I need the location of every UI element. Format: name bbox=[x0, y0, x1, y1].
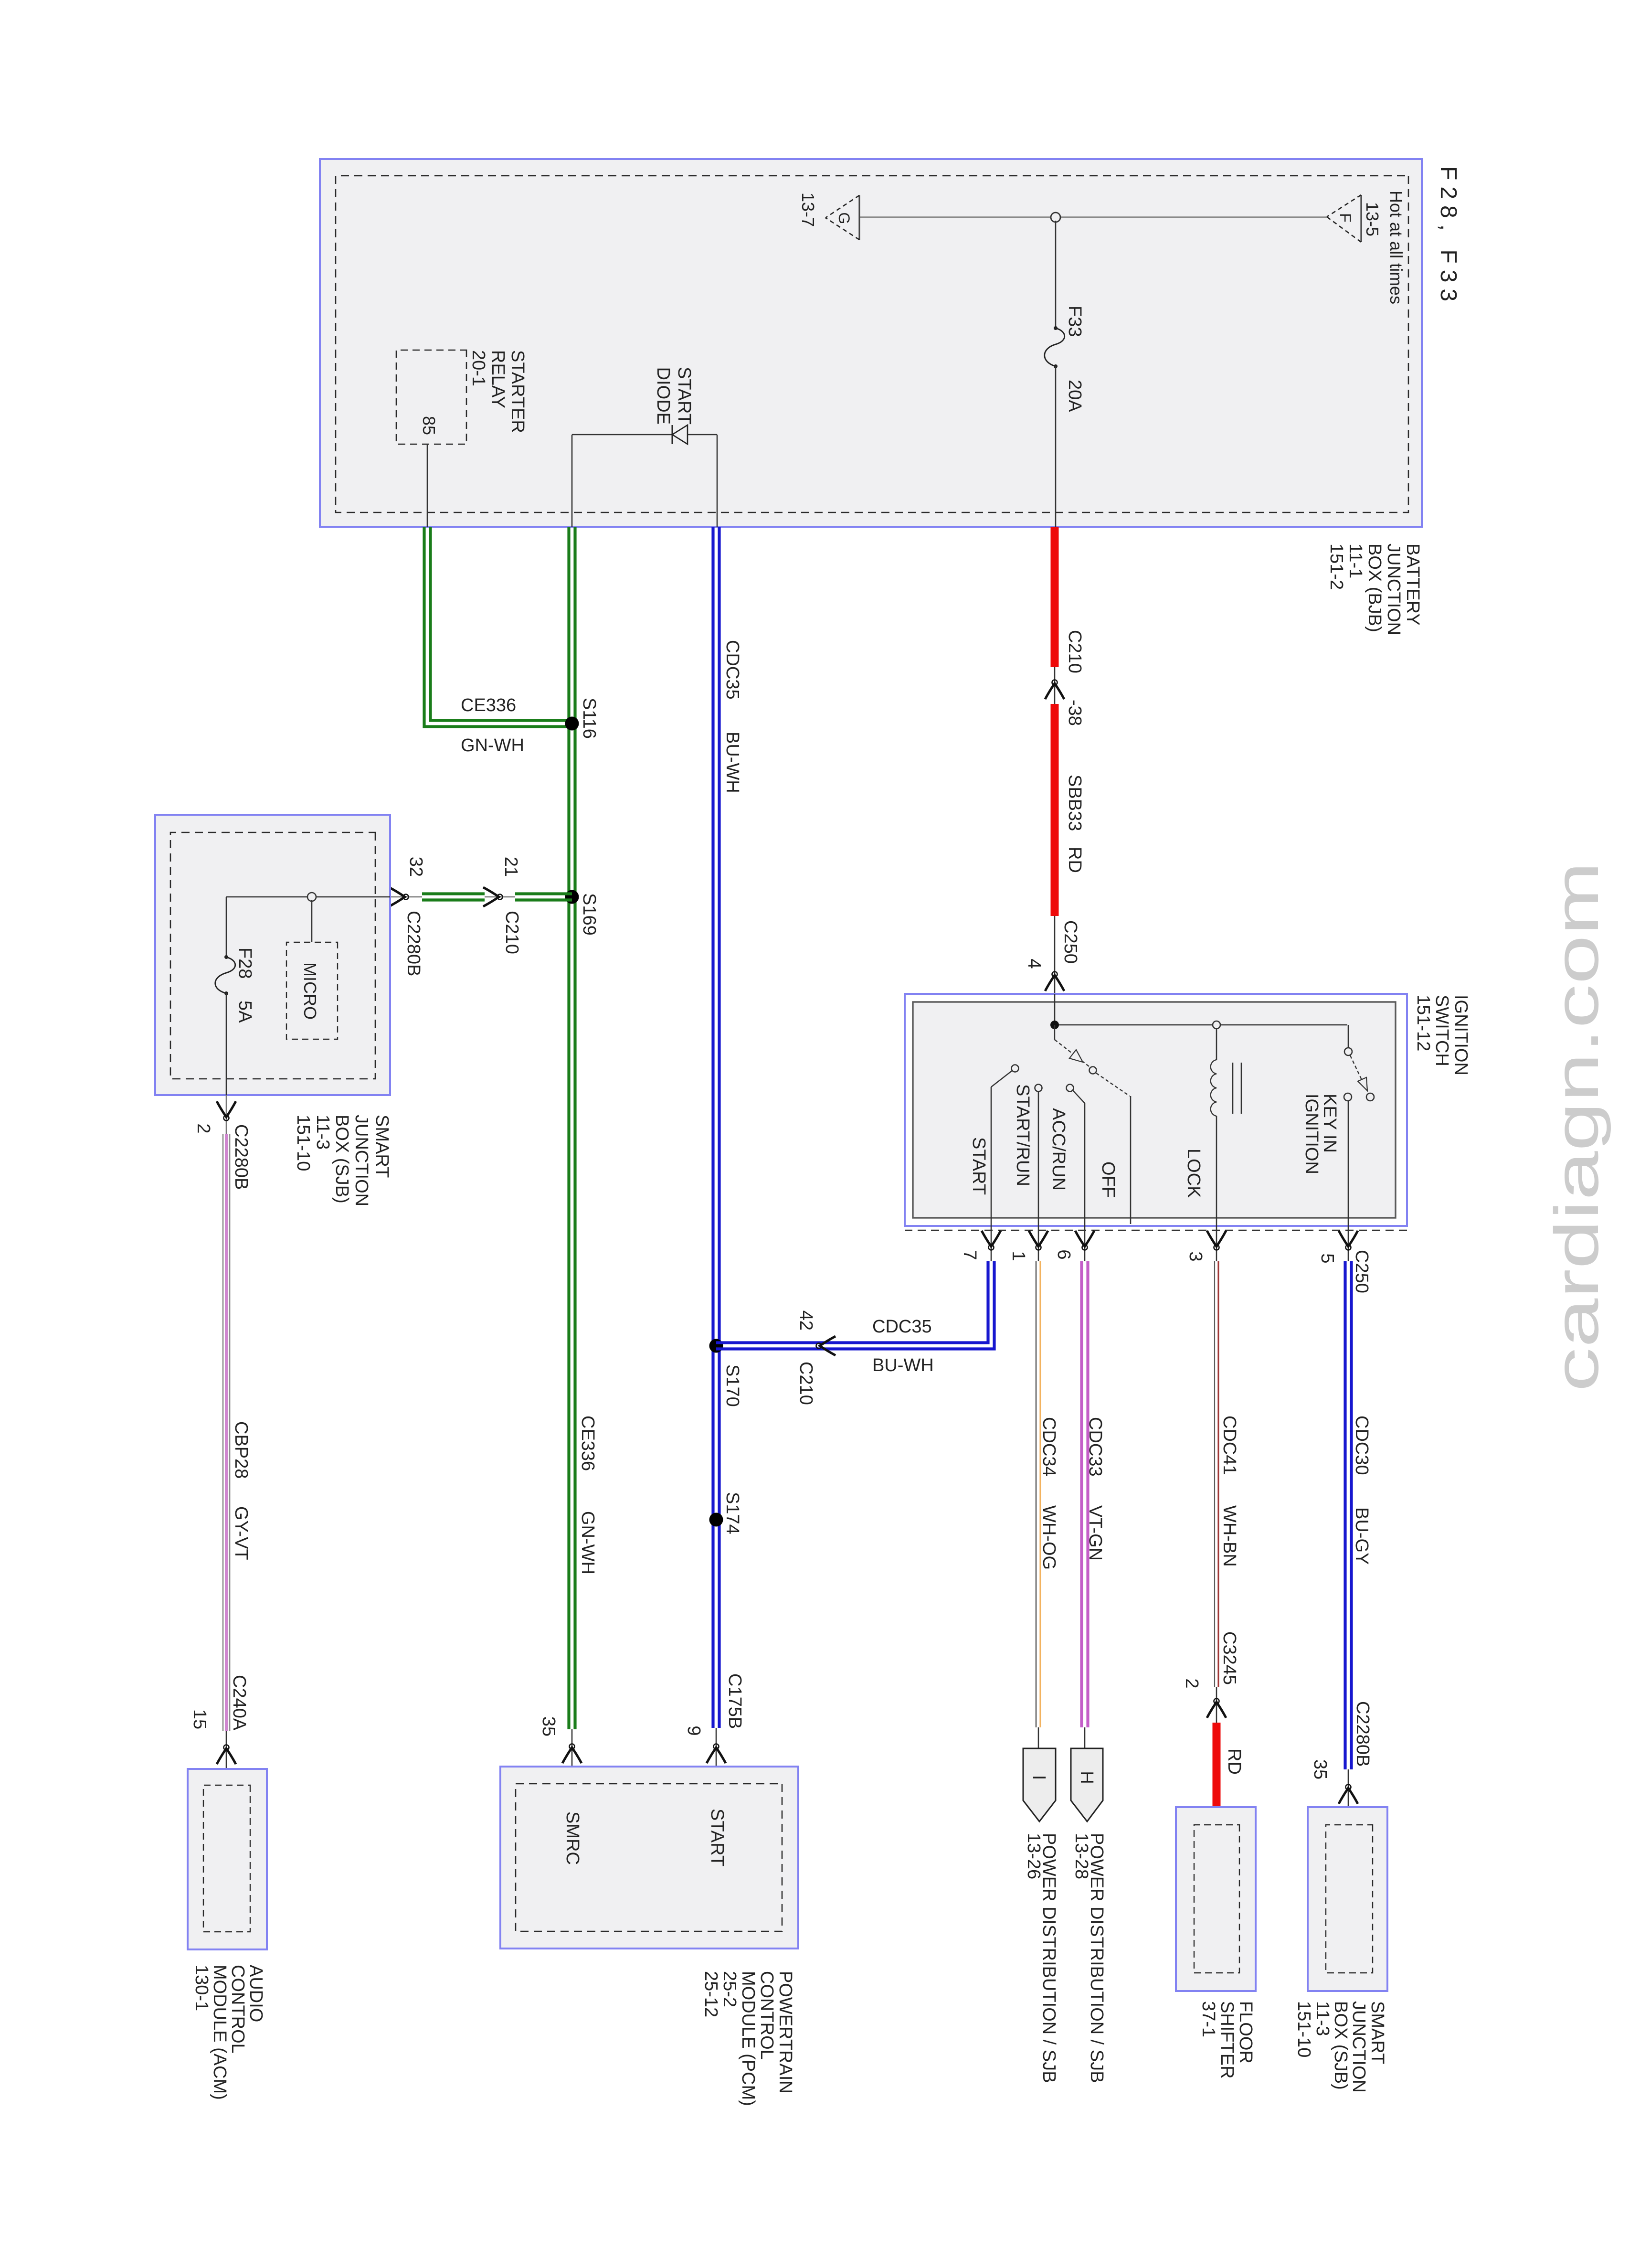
SJB2 label bbox=[1294, 2001, 1387, 2093]
svg-text:JUNCTION: JUNCTION bbox=[1384, 543, 1404, 635]
smart junction box SJB outline bbox=[155, 815, 390, 1095]
red wire to floor shifter bbox=[1213, 1723, 1221, 1807]
starter relay dashed box bbox=[396, 350, 466, 444]
svg-text:151-2: 151-2 bbox=[1326, 543, 1346, 590]
key in ignition switch bbox=[1344, 1025, 1374, 1226]
svg-text:S174: S174 bbox=[722, 1492, 742, 1534]
ignition switch box outer bbox=[905, 994, 1407, 1226]
svg-text:F33: F33 bbox=[1065, 306, 1085, 337]
PCM label bbox=[701, 1971, 795, 2106]
svg-text:cardiagn.com: cardiagn.com bbox=[1542, 862, 1611, 1392]
wire thin to ignition bbox=[1054, 916, 1056, 994]
svg-text:20A: 20A bbox=[1065, 380, 1085, 412]
blue wire pin7 with corner to S170 bbox=[716, 1261, 994, 1349]
svg-text:SMART: SMART bbox=[1367, 2001, 1387, 2064]
svg-text:C210: C210 bbox=[502, 911, 522, 954]
green wire SJB branch lower bbox=[422, 892, 485, 895]
svg-text:35: 35 bbox=[1310, 1759, 1330, 1779]
svg-text:STARTER: STARTER bbox=[508, 350, 528, 433]
wire OFF position bbox=[1096, 1073, 1131, 1224]
svg-text:GN-WH: GN-WH bbox=[461, 735, 524, 756]
terminal circle lock branch bbox=[1213, 1021, 1220, 1029]
svg-text:CONTROL: CONTROL bbox=[228, 1965, 248, 2054]
ACM label bbox=[191, 1965, 266, 2100]
wire from bus to fuse F33 bbox=[1055, 221, 1057, 328]
svg-text:MODULE (PCM): MODULE (PCM) bbox=[738, 1971, 758, 2106]
svg-text:151-10: 151-10 bbox=[1294, 2001, 1314, 2057]
svg-text:START: START bbox=[707, 1809, 727, 1866]
SJB2 dashed border bbox=[1326, 1825, 1373, 1973]
wire CBP28 GY-VT bbox=[223, 1134, 230, 1731]
fuse F28 bbox=[215, 955, 235, 995]
svg-text:SBB33: SBB33 bbox=[1065, 775, 1085, 831]
green wire CE336 main run bbox=[573, 527, 576, 1729]
svg-text:32: 32 bbox=[406, 857, 426, 877]
connector arrow C175B pin 9 bbox=[707, 1744, 726, 1764]
red wire SBB33 segment 2 bbox=[1051, 704, 1059, 916]
svg-text:F: F bbox=[1337, 213, 1354, 223]
red fuse output wire SBB33 segment 1 bbox=[1051, 527, 1059, 667]
svg-text:11-3: 11-3 bbox=[313, 1115, 333, 1150]
wire fuse F33 to box edge bbox=[1055, 366, 1057, 527]
blue wire CDC35 main run bbox=[718, 527, 720, 1728]
svg-text:LOCK: LOCK bbox=[1184, 1149, 1204, 1198]
svg-text:C240A: C240A bbox=[229, 1675, 249, 1731]
svg-text:CDC30: CDC30 bbox=[1352, 1416, 1372, 1475]
wire thin blue to PCM bbox=[716, 1728, 717, 1784]
wire thin to connector 2 C2280B bbox=[226, 1095, 227, 1134]
node S169 bbox=[565, 890, 579, 904]
svg-text:C2280B: C2280B bbox=[1353, 1701, 1373, 1767]
connector arrow 2 C2280B bbox=[217, 1101, 236, 1121]
wire thin green to PCM bbox=[571, 1729, 573, 1784]
svg-text:KEY IN: KEY IN bbox=[1320, 1094, 1340, 1153]
svg-text:-38: -38 bbox=[1065, 700, 1085, 726]
svg-text:11-3: 11-3 bbox=[1312, 2001, 1333, 2036]
wire thin to connector I bbox=[1038, 1727, 1039, 1748]
svg-text:15: 15 bbox=[190, 1709, 210, 1729]
wire thin from SJB to connector 32 bbox=[390, 896, 422, 898]
svg-text:C3245: C3245 bbox=[1219, 1631, 1239, 1685]
svg-text:25-12: 25-12 bbox=[701, 1971, 721, 2017]
svg-text:I: I bbox=[1029, 1775, 1049, 1780]
connector arrow 2 C3245 bbox=[1207, 1699, 1226, 1718]
SJB label bbox=[293, 1115, 392, 1206]
svg-text:151-10: 151-10 bbox=[293, 1115, 313, 1171]
svg-text:151-12: 151-12 bbox=[1413, 995, 1433, 1051]
svg-text:13-5: 13-5 bbox=[1363, 202, 1382, 236]
connector C250 dashed line bbox=[905, 1230, 1407, 1231]
svg-text:S169: S169 bbox=[579, 893, 599, 936]
svg-text:C250: C250 bbox=[1352, 1250, 1372, 1293]
connector arrow pin 3 bbox=[1207, 1231, 1226, 1250]
svg-text:IGNITION: IGNITION bbox=[1451, 995, 1471, 1075]
connector arrow 35 C2280B bbox=[1339, 1785, 1358, 1804]
wire BU-GY bbox=[1350, 1261, 1353, 1769]
smart junction box SJB lower bbox=[1308, 1807, 1387, 1991]
svg-text:IGNITION: IGNITION bbox=[1301, 1094, 1322, 1174]
connector I pentagon bbox=[1023, 1748, 1056, 1821]
svg-text:5A: 5A bbox=[235, 1001, 255, 1023]
pin 6 wire exit bbox=[1084, 1226, 1086, 1261]
battery junction box (BJB) outline bbox=[320, 159, 1422, 527]
svg-text:S116: S116 bbox=[579, 698, 599, 739]
wire VT-GN bbox=[1086, 1261, 1089, 1727]
svg-text:13-28: 13-28 bbox=[1071, 1833, 1091, 1879]
svg-text:7: 7 bbox=[960, 1250, 980, 1260]
svg-text:C210: C210 bbox=[1065, 630, 1085, 673]
PCM dashed border bbox=[516, 1784, 782, 1931]
wire thin into floor shifter bbox=[1216, 1807, 1217, 1825]
connector arrow PCM pin 35 bbox=[562, 1744, 582, 1764]
svg-text:C210: C210 bbox=[796, 1362, 816, 1405]
contact START/RUN bbox=[1035, 1085, 1042, 1226]
connector arrow pin 6 bbox=[1075, 1231, 1094, 1250]
SJB internal wire vertical bbox=[226, 896, 390, 898]
svg-text:BOX (SJB): BOX (SJB) bbox=[1331, 2001, 1351, 2090]
svg-text:RD: RD bbox=[1065, 847, 1085, 873]
svg-text:CE336: CE336 bbox=[578, 1416, 598, 1471]
label KEY IN IGNITION bbox=[1301, 1094, 1340, 1174]
svg-text:SWITCH: SWITCH bbox=[1432, 995, 1452, 1066]
ACM dashed border bbox=[203, 1785, 250, 1932]
SJB dashed border bbox=[170, 832, 375, 1079]
svg-text:MODULE (ACM): MODULE (ACM) bbox=[210, 1965, 230, 2100]
svg-text:130-1: 130-1 bbox=[191, 1965, 212, 2011]
svg-text:GN-WH: GN-WH bbox=[578, 1511, 598, 1575]
wire entry pin 4 into switch bbox=[1054, 994, 1056, 1025]
ignition switch label bbox=[1413, 995, 1471, 1075]
svg-text:G: G bbox=[836, 213, 853, 224]
junction dot feed bbox=[1050, 1021, 1059, 1029]
pin 5 wire exit bbox=[1348, 1226, 1349, 1261]
SJB internal wire horizontal bbox=[226, 897, 227, 957]
power feed triangle F bbox=[1327, 195, 1361, 242]
wire WH-BN bbox=[1214, 1261, 1215, 1687]
svg-text:3: 3 bbox=[1185, 1251, 1206, 1261]
connector arrow pin 1 bbox=[1029, 1231, 1048, 1250]
svg-text:C2280B: C2280B bbox=[403, 911, 423, 976]
floor shifter label bbox=[1198, 2001, 1256, 2079]
wire thin at C3245 bbox=[1216, 1687, 1217, 1723]
svg-text:H: H bbox=[1077, 1771, 1097, 1784]
svg-text:RD: RD bbox=[1224, 1748, 1244, 1775]
wire fuse to box edge bbox=[226, 993, 227, 1095]
svg-text:11-1: 11-1 bbox=[1345, 543, 1365, 578]
lock coil branch bbox=[1211, 1028, 1241, 1226]
svg-text:4: 4 bbox=[1024, 958, 1044, 969]
svg-text:25-2: 25-2 bbox=[719, 1971, 740, 2007]
svg-text:BATTERY: BATTERY bbox=[1403, 543, 1423, 626]
svg-text:37-1: 37-1 bbox=[1198, 2001, 1218, 2037]
pin 1 wire exit bbox=[1038, 1226, 1039, 1261]
floor shifter box bbox=[1176, 1807, 1256, 1991]
svg-text:C175B: C175B bbox=[725, 1673, 745, 1729]
svg-text:20-1: 20-1 bbox=[468, 350, 488, 386]
connector arrow 42 C210 bbox=[816, 1336, 836, 1355]
svg-text:BOX (BJB): BOX (BJB) bbox=[1365, 543, 1385, 632]
connector arrow 32 C2280B bbox=[389, 887, 409, 906]
terminal circle bbox=[307, 893, 316, 901]
ignition switch box inner bbox=[913, 1002, 1396, 1218]
svg-text:MICRO: MICRO bbox=[300, 962, 320, 1020]
wire WH-OG bbox=[1036, 1261, 1037, 1727]
junction circle on bus bbox=[1051, 213, 1060, 222]
svg-text:35: 35 bbox=[539, 1716, 559, 1736]
svg-text:ACC/RUN: ACC/RUN bbox=[1048, 1108, 1068, 1191]
MICRO dashed box bbox=[286, 942, 338, 1039]
svg-text:9: 9 bbox=[684, 1725, 704, 1736]
contact START bbox=[991, 1065, 1019, 1226]
power feed triangle G bbox=[825, 195, 859, 240]
connector arrow C210 -38 bbox=[1045, 680, 1064, 700]
svg-text:13-26: 13-26 bbox=[1024, 1833, 1044, 1879]
node S116 bbox=[565, 717, 579, 731]
svg-text:JUNCTION: JUNCTION bbox=[351, 1115, 371, 1206]
svg-text:5: 5 bbox=[1317, 1253, 1337, 1263]
svg-text:42: 42 bbox=[796, 1310, 816, 1331]
svg-text:CDC35: CDC35 bbox=[722, 640, 742, 700]
svg-text:F28, F33: F28, F33 bbox=[1436, 166, 1461, 308]
svg-text:START: START bbox=[674, 367, 694, 425]
connector arrow 21 C210 bbox=[485, 896, 515, 898]
svg-text:SHIFTER: SHIFTER bbox=[1217, 2001, 1237, 2079]
wire relay 85 to box edge bbox=[427, 444, 428, 527]
connector arrow C250 pin 4 bbox=[1045, 972, 1064, 991]
switch feed line bbox=[1055, 1024, 1347, 1026]
svg-text:CE336: CE336 bbox=[461, 695, 516, 715]
svg-text:GY-VT: GY-VT bbox=[231, 1506, 251, 1560]
audio control module box bbox=[188, 1769, 267, 1949]
green wire SJB branch upper bbox=[515, 892, 572, 895]
svg-text:FLOOR: FLOOR bbox=[1236, 2001, 1256, 2064]
BJB dashed border bbox=[336, 176, 1408, 512]
svg-text:21: 21 bbox=[501, 857, 521, 877]
svg-text:START: START bbox=[969, 1137, 989, 1195]
svg-text:13-7: 13-7 bbox=[798, 192, 818, 227]
svg-text:BU-WH: BU-WH bbox=[872, 1355, 934, 1375]
wire thin to SJB2 bbox=[1348, 1769, 1349, 1825]
green wire relay branch with corner bbox=[424, 527, 572, 727]
wiper arm START bbox=[1055, 1025, 1097, 1074]
powertrain control module box bbox=[500, 1767, 798, 1949]
svg-text:CBP28: CBP28 bbox=[231, 1421, 251, 1479]
node S174 bbox=[709, 1513, 723, 1527]
svg-text:CONTROL: CONTROL bbox=[757, 1971, 777, 2060]
starter relay label bbox=[468, 350, 528, 433]
bus wire from F to G bbox=[859, 216, 1327, 218]
svg-text:SMART: SMART bbox=[372, 1115, 392, 1178]
svg-text:CDC33: CDC33 bbox=[1085, 1417, 1105, 1477]
svg-text:DIODE: DIODE bbox=[653, 367, 673, 425]
pin 7 wire exit bbox=[991, 1226, 992, 1261]
svg-text:Hot at all times: Hot at all times bbox=[1386, 191, 1406, 304]
start diode symbol bbox=[672, 425, 688, 444]
start diode branch wires bbox=[572, 435, 717, 527]
svg-text:1: 1 bbox=[1008, 1251, 1028, 1261]
svg-text:6: 6 bbox=[1054, 1249, 1074, 1259]
fuse F33 bbox=[1045, 326, 1065, 368]
BJB label bbox=[1326, 543, 1423, 635]
svg-text:AUDIO: AUDIO bbox=[246, 1965, 266, 2022]
svg-text:WH-OG: WH-OG bbox=[1039, 1505, 1059, 1570]
connector arrow pin 7 bbox=[982, 1231, 1001, 1250]
wire thin at C240A bbox=[226, 1731, 227, 1769]
wire thin to connector H bbox=[1084, 1727, 1086, 1748]
contact ACC/RUN bbox=[1067, 1085, 1085, 1226]
svg-text:WH-BN: WH-BN bbox=[1219, 1505, 1239, 1567]
svg-text:BOX (SJB): BOX (SJB) bbox=[332, 1115, 352, 1203]
svg-text:C250: C250 bbox=[1060, 920, 1080, 964]
pin 3 wire exit bbox=[1216, 1226, 1217, 1261]
connector arrow pin 5 bbox=[1339, 1231, 1358, 1250]
svg-text:2: 2 bbox=[1182, 1678, 1202, 1688]
svg-text:POWERTRAIN: POWERTRAIN bbox=[775, 1971, 795, 2094]
svg-text:BU-WH: BU-WH bbox=[722, 732, 742, 793]
svg-text:CDC34: CDC34 bbox=[1039, 1417, 1059, 1477]
svg-text:OFF: OFF bbox=[1098, 1161, 1118, 1198]
svg-text:RELAY: RELAY bbox=[488, 350, 508, 408]
svg-text:JUNCTION: JUNCTION bbox=[1349, 2001, 1369, 2093]
wire into ACM bbox=[226, 1769, 227, 1785]
svg-text:C2280B: C2280B bbox=[231, 1124, 251, 1190]
svg-text:BU-GY: BU-GY bbox=[1352, 1507, 1372, 1565]
svg-text:S170: S170 bbox=[722, 1364, 742, 1407]
wire thin at C210 bbox=[1054, 667, 1056, 704]
node S170 bbox=[709, 1339, 723, 1353]
wire to MICRO bbox=[311, 900, 313, 942]
connector H pentagon bbox=[1071, 1748, 1103, 1821]
svg-text:F28: F28 bbox=[235, 948, 255, 979]
svg-text:CDC41: CDC41 bbox=[1219, 1416, 1239, 1475]
floor shifter dashed border bbox=[1194, 1825, 1239, 1973]
connector arrow 15 C240A bbox=[217, 1745, 236, 1765]
svg-text:85: 85 bbox=[419, 416, 439, 435]
svg-text:CDC35: CDC35 bbox=[872, 1317, 932, 1337]
svg-text:SMRC: SMRC bbox=[562, 1811, 582, 1865]
svg-text:START/RUN: START/RUN bbox=[1013, 1084, 1033, 1186]
svg-text:2: 2 bbox=[193, 1123, 213, 1133]
svg-text:VT-GN: VT-GN bbox=[1085, 1505, 1105, 1561]
